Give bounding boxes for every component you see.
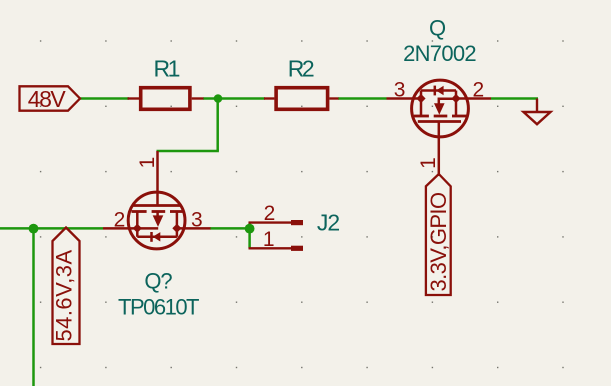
- svg-text:J2: J2: [317, 210, 340, 236]
- svg-text:Q?: Q?: [144, 269, 172, 294]
- pin 3 drain line: [387, 97, 422, 100]
- wire left edge to PMOS pin2: [0, 227, 103, 230]
- source diamond: [133, 224, 142, 233]
- channel dash left: [414, 115, 429, 118]
- bulk arrow down: [434, 103, 445, 115]
- svg-text:54.6V,3A: 54.6V,3A: [52, 249, 77, 341]
- gate bar: [418, 120, 461, 123]
- channel dash middle: [152, 210, 166, 213]
- svg-text:2N7002: 2N7002: [403, 41, 476, 66]
- wire PMOS pin3 to J2: [210, 227, 250, 230]
- top body-diode rail: [421, 89, 456, 92]
- junction dot at 54.6V wire: [29, 224, 39, 234]
- gate bar: [134, 204, 181, 207]
- body diode triangle: [436, 86, 444, 95]
- svg-text:3: 3: [191, 209, 203, 232]
- svg-text:Q: Q: [429, 16, 446, 41]
- wire 48V to R1: [80, 97, 129, 100]
- svg-text:R2: R2: [288, 56, 314, 82]
- pin 2 source line: [103, 227, 158, 230]
- svg-text:2: 2: [473, 79, 485, 102]
- ground: [524, 99, 551, 125]
- svg-text:48V: 48V: [28, 86, 67, 112]
- svg-text:3.3V,GPIO: 3.3V,GPIO: [426, 192, 451, 291]
- body diode cathode bar: [150, 232, 153, 242]
- pin 2 source line: [456, 97, 491, 100]
- svg-text:R1: R1: [153, 56, 179, 82]
- bottom body-diode rail: [137, 236, 177, 239]
- resistor R2: [264, 88, 339, 110]
- pin 3 drain line: [177, 227, 211, 230]
- wire R2 to Q drain: [338, 97, 387, 100]
- body circle: [128, 192, 185, 249]
- channel dash right: [452, 115, 467, 118]
- body diode cathode bar: [434, 86, 437, 96]
- global label 54.6V,3A: [53, 228, 80, 345]
- global label 48V: [20, 86, 81, 110]
- left stub down to channel: [420, 91, 423, 117]
- wire 54.6V junction down to bottom: [32, 228, 35, 386]
- channel dash right: [170, 210, 184, 213]
- svg-text:1: 1: [417, 157, 440, 169]
- resistor R1: [128, 88, 204, 110]
- left stub up to channel: [136, 212, 139, 237]
- bulk arrow stem: [156, 212, 159, 216]
- wire Q source to GND: [491, 97, 538, 100]
- pin 1 line: [249, 247, 293, 249]
- bulk L connection: [439, 99, 456, 104]
- source diamond: [451, 94, 460, 103]
- svg-text:1: 1: [263, 228, 275, 251]
- wire junction down: [216, 99, 219, 152]
- transistor Q 2N7002 NMOS: [387, 80, 492, 176]
- drain diamond: [416, 94, 425, 103]
- drain diamond: [172, 224, 181, 233]
- right stub down to channel: [455, 91, 458, 117]
- junction dot at R1-R2: [214, 94, 223, 103]
- svg-text:3: 3: [394, 79, 406, 102]
- svg-text:1: 1: [136, 157, 159, 169]
- svg-text:2: 2: [264, 202, 276, 225]
- svg-text:2: 2: [114, 209, 126, 232]
- transistor Q? TP0610T PMOS: [103, 151, 211, 249]
- junction dot at J2: [245, 224, 255, 234]
- connector J2: [249, 220, 304, 251]
- pin 1 gate line down: [438, 122, 441, 177]
- pin 2 line: [249, 221, 293, 223]
- channel dash middle: [434, 115, 448, 118]
- pin 1 gate line up: [156, 151, 159, 206]
- body circle: [412, 80, 469, 137]
- wire J2 junction to pin1: [248, 223, 251, 249]
- channel dash left: [132, 210, 147, 213]
- wire elbow to PMOS gate: [157, 150, 219, 153]
- global label 3.3V,GPIO: [426, 174, 451, 295]
- body diode triangle: [153, 232, 161, 241]
- right stub up to channel: [176, 212, 179, 237]
- bulk arrow down: [153, 215, 164, 227]
- svg-text:TP0610T: TP0610T: [118, 295, 199, 320]
- wire R1 to R2: [203, 97, 265, 100]
